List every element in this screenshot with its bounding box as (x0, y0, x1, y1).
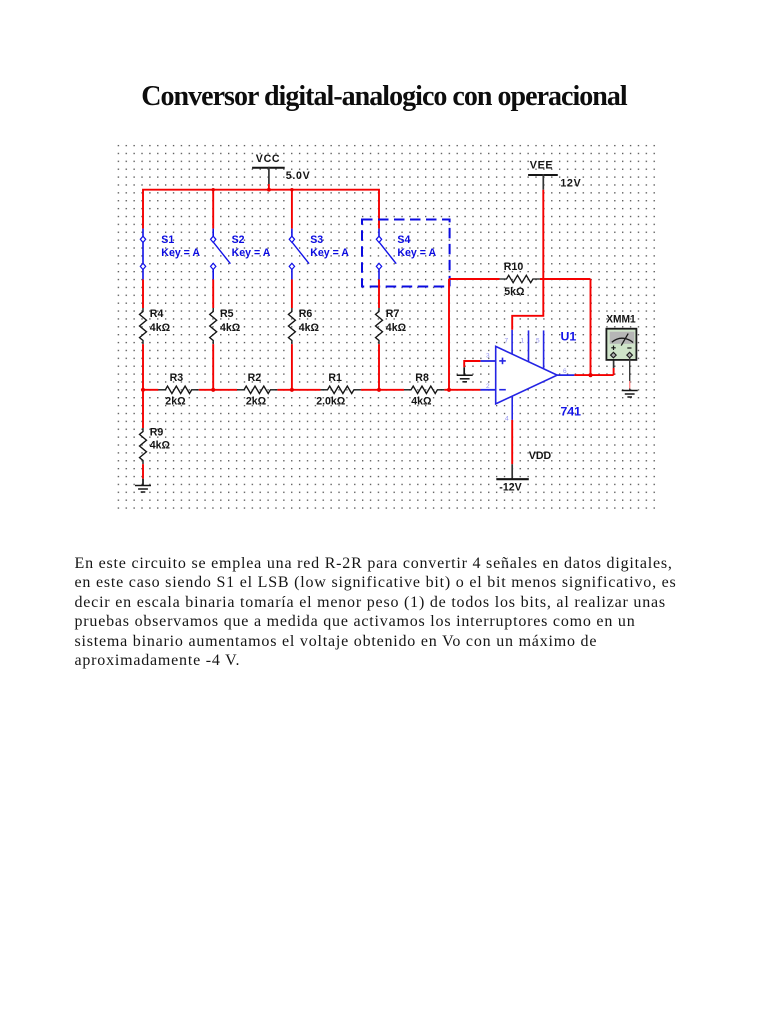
svg-text:Key = A: Key = A (161, 247, 200, 259)
svg-text:6: 6 (563, 368, 567, 375)
switch S1 (closed), Key = A (140, 229, 200, 280)
svg-text:VDD: VDD (529, 450, 552, 462)
switch S2 (open), Key = A (211, 229, 271, 280)
ground at + input (457, 367, 473, 382)
node: ladder junction at R5 (211, 388, 215, 392)
svg-text:R9: R9 (150, 427, 164, 439)
svg-text:2kΩ: 2kΩ (165, 395, 186, 407)
svg-text:R1: R1 (328, 372, 342, 384)
schematic dotted grid background (118, 145, 656, 510)
op-amp U1 741 (480, 330, 581, 423)
VEE power symbol, 12V (528, 160, 581, 190)
resistor R2 2k (237, 372, 277, 407)
svg-text:XMM1: XMM1 (606, 314, 636, 326)
svg-text:R6: R6 (299, 308, 313, 320)
wire: feedback vertical (448, 279, 450, 390)
resistor R9 4k (140, 427, 171, 465)
wire: R7 to ladder (378, 344, 380, 390)
svg-text:Key = A: Key = A (310, 247, 349, 259)
resistor R10 5k (500, 261, 540, 298)
wire: op-amp output (574, 374, 613, 376)
wire: S3 to R6 (291, 279, 293, 308)
resistor R3 2k (158, 372, 198, 407)
svg-text:4kΩ: 4kΩ (299, 322, 320, 334)
wire: S4 to R7 (378, 279, 380, 308)
wire: feedback horizontal segments (449, 278, 500, 280)
svg-text:3: 3 (486, 353, 490, 360)
ground below XMM1 (622, 391, 638, 398)
node: ladder junction at R9 (141, 388, 145, 392)
resistor R1 2.0k (316, 372, 361, 407)
resistor R7 4k (376, 308, 407, 344)
svg-text:R5: R5 (220, 308, 234, 320)
svg-text:4kΩ: 4kΩ (150, 440, 171, 452)
svg-text:VCC: VCC (256, 153, 280, 165)
svg-text:4kΩ: 4kΩ (220, 322, 241, 334)
wire: R5 to ladder (212, 344, 214, 390)
VDD power rail, -12V (496, 450, 551, 493)
node: VCC tap junction (267, 188, 271, 192)
svg-text:R10: R10 (504, 261, 524, 273)
node: S3 tap junction (290, 188, 293, 191)
wire: + input to ground (464, 361, 480, 367)
resistor R8 4k (404, 372, 444, 407)
svg-text:4kΩ: 4kΩ (386, 322, 407, 334)
wire: S1 to R4 (142, 279, 144, 308)
svg-text:5: 5 (536, 338, 540, 345)
svg-text:U1: U1 (561, 330, 577, 344)
svg-text:2: 2 (486, 383, 490, 390)
svg-text:5.0V: 5.0V (286, 170, 311, 182)
wire: ladder horizontal segments (143, 389, 480, 391)
svg-text:1: 1 (521, 338, 525, 345)
resistor R5 4k (210, 308, 241, 344)
wire: feedback to output node (590, 279, 592, 375)
svg-text:S4: S4 (397, 234, 410, 246)
document title (0, 81, 768, 113)
svg-text:R2: R2 (248, 372, 262, 384)
wire: output up to XMM1 plus terminal (613, 368, 615, 375)
node: ladder junction at feedback (447, 388, 451, 392)
svg-text:5kΩ: 5kΩ (504, 286, 525, 298)
node: S2 tap junction (212, 188, 215, 191)
selection box around S4 (dashed) (362, 220, 450, 287)
resistor R6 4k (288, 308, 319, 344)
wire: op-amp pin4 down (511, 420, 513, 464)
node: output junction (588, 373, 592, 377)
svg-text:4kΩ: 4kΩ (411, 395, 432, 407)
svg-text:2.0kΩ: 2.0kΩ (316, 395, 346, 407)
svg-text:4: 4 (505, 416, 509, 423)
svg-text:2kΩ: 2kΩ (246, 395, 267, 407)
resistor R4 4k (140, 308, 171, 344)
svg-text:Key = A: Key = A (397, 247, 436, 259)
wire: R4 to ladder (142, 344, 144, 390)
node: ladder junction at R6 (290, 388, 294, 392)
svg-text:7: 7 (505, 338, 509, 345)
wire: R6 to ladder (291, 344, 293, 390)
svg-text:S3: S3 (310, 234, 323, 246)
wire: S2 branch top (212, 190, 214, 229)
svg-text:-12V: -12V (499, 481, 521, 493)
svg-text:12V: 12V (560, 177, 581, 189)
switch S4 (open), Key = A (376, 229, 436, 280)
multimeter XMM1 (606, 314, 636, 360)
node: ladder junction at R7 (377, 388, 381, 392)
wire: XMM1 minus terminal to ground (629, 358, 631, 381)
svg-text:S2: S2 (232, 234, 245, 246)
wire: R9 to ground (142, 464, 144, 479)
wire: S2 to R5 (212, 279, 214, 308)
svg-text:R8: R8 (415, 372, 429, 384)
svg-text:4kΩ: 4kΩ (150, 322, 171, 334)
wire: top supply rail (143, 190, 379, 229)
svg-text:R4: R4 (150, 308, 164, 320)
svg-text:R3: R3 (170, 372, 184, 384)
wire: R9 branch (142, 390, 144, 428)
svg-text:741: 741 (561, 405, 582, 419)
wire: S3 branch top (291, 190, 293, 229)
wire: VEE supply down (512, 190, 543, 330)
svg-text:VEE: VEE (530, 160, 553, 172)
VCC power symbol, 5.0V (252, 153, 310, 190)
svg-text:S1: S1 (161, 234, 174, 246)
ground below R9 (135, 479, 151, 492)
svg-text:R7: R7 (386, 308, 400, 320)
switch S3 (open), Key = A (289, 229, 349, 280)
body paragraph (75, 554, 677, 672)
svg-text:Key = A: Key = A (232, 247, 271, 259)
